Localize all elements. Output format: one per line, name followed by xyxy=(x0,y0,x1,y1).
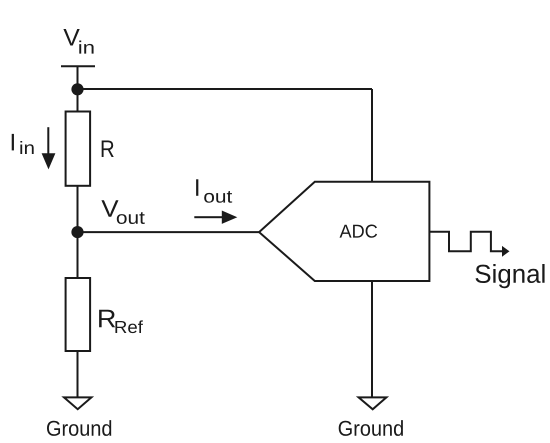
value label RRef xyxy=(99,310,115,328)
label ADC xyxy=(340,225,378,238)
current arrow I_in xyxy=(42,127,56,169)
label Vin xyxy=(63,29,79,46)
signal output arrow xyxy=(502,246,510,257)
op-amp style ADC block U1 xyxy=(259,182,429,281)
label Signal xyxy=(475,264,544,288)
resistor R body xyxy=(66,112,91,186)
node A junction dot xyxy=(71,83,83,95)
wire right vertical down to ADC top xyxy=(371,89,373,182)
wire resistor R to node B xyxy=(77,186,79,232)
ground symbol left xyxy=(64,397,91,409)
node B junction dot xyxy=(71,226,83,238)
label Ground right xyxy=(339,420,403,436)
wire node B to ADC input xyxy=(78,231,260,233)
wire rail to node A xyxy=(77,66,79,89)
ground symbol right xyxy=(359,397,387,409)
wire ADC bottom to ground xyxy=(371,281,373,397)
square wave output of ADC xyxy=(429,232,502,252)
resistor RRef body xyxy=(66,278,91,351)
wire resistor RRef to ground xyxy=(77,351,79,397)
label Vout xyxy=(101,200,118,217)
value label R xyxy=(102,140,114,157)
label Iout xyxy=(196,179,198,196)
label Iin xyxy=(12,134,14,151)
current arrow I_out xyxy=(194,211,237,224)
wire node B to resistor RRef xyxy=(77,232,79,278)
wire node A to resistor R xyxy=(77,89,79,112)
wire top horizontal node A to ADC branch xyxy=(78,88,373,90)
power rail bar Vin xyxy=(61,65,95,67)
label Ground left xyxy=(47,420,111,436)
